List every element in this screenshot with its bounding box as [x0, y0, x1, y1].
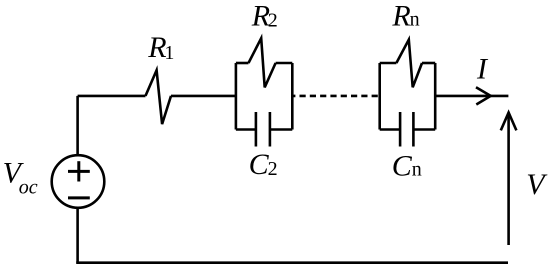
capacitor C2	[256, 112, 270, 147]
wire top-left horizontal from source branch to R1	[78, 95, 146, 98]
wire bottom return	[76, 261, 508, 264]
wire C2 bottom lead right	[270, 128, 292, 131]
wire Cn bottom lead left	[380, 128, 400, 131]
polarity plus	[68, 161, 90, 181]
wire dashed link between R2C2 and RnCn	[292, 95, 379, 98]
svg-text:n: n	[410, 9, 420, 31]
resistor R2	[249, 38, 276, 87]
node left vertical of R2C2 block	[235, 63, 238, 130]
wire C2 bottom lead left	[236, 128, 256, 131]
node right vertical of RnCn block	[434, 63, 437, 130]
svg-text:V: V	[526, 168, 548, 201]
node left vertical of RnCn block	[378, 63, 381, 130]
svg-text:2: 2	[268, 10, 278, 32]
wire left vertical upper to source	[76, 96, 79, 155]
polarity minus	[68, 196, 90, 199]
svg-text:C: C	[392, 149, 413, 182]
wire output top right	[435, 95, 508, 98]
wire R2 top edge left	[236, 62, 249, 65]
wire R1 to R2 block	[171, 95, 236, 98]
svg-text:n: n	[412, 158, 422, 180]
wire Rn top edge right	[422, 62, 435, 65]
svg-text:C: C	[249, 148, 270, 181]
svg-text:1: 1	[164, 42, 174, 64]
svg-text:2: 2	[268, 158, 278, 180]
capacitor Cn	[400, 112, 413, 147]
voltage source Voc circle	[52, 155, 105, 208]
wire left vertical lower from source	[76, 208, 79, 263]
resistor R1	[146, 70, 172, 124]
svg-text:I: I	[476, 53, 489, 86]
arrow voltage V	[501, 113, 517, 246]
wire Rn top edge left	[380, 62, 397, 65]
svg-text:R: R	[391, 0, 410, 33]
wire R2 top edge right	[276, 62, 293, 65]
arrowhead current I	[476, 87, 491, 104]
wire Cn bottom lead right	[413, 128, 435, 131]
svg-text:oc: oc	[19, 176, 38, 198]
resistor Rn	[396, 40, 422, 88]
node right vertical of R2C2 block	[291, 63, 294, 130]
